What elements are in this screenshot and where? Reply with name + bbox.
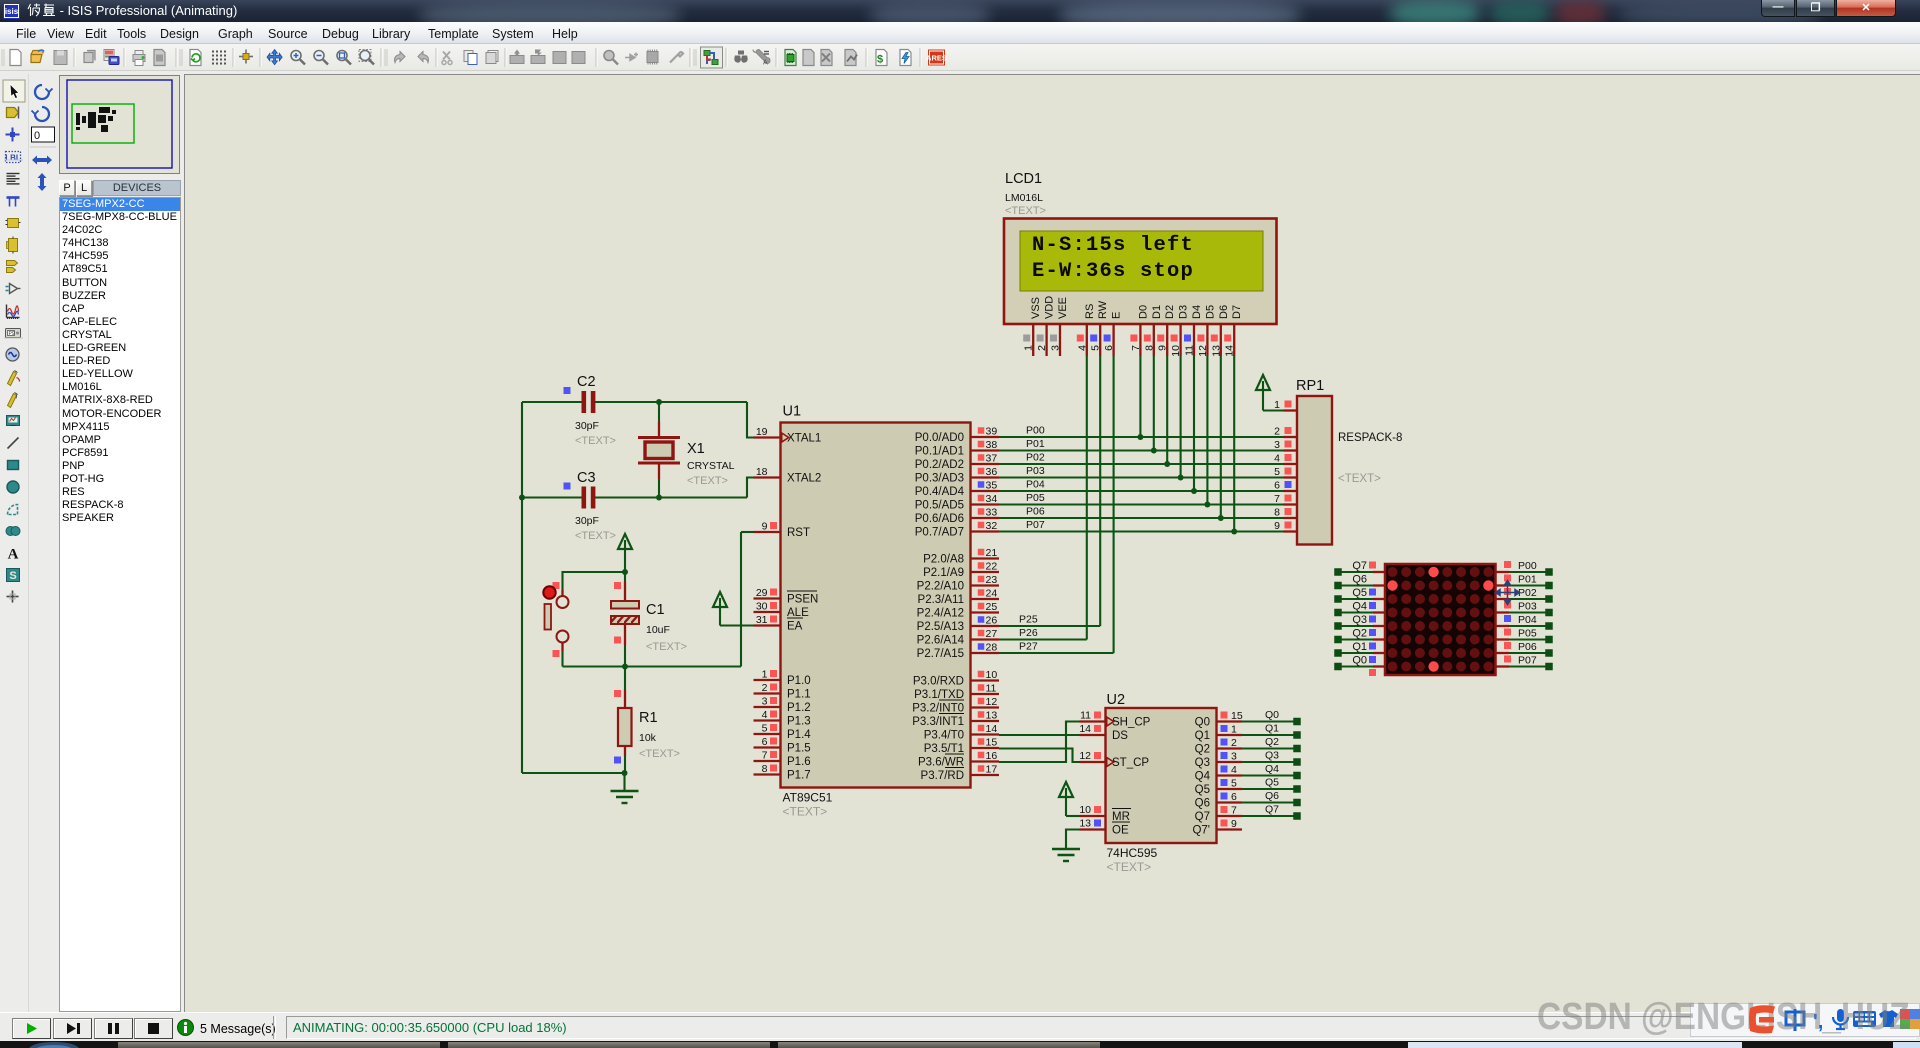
svg-text:13: 13 xyxy=(1210,345,1222,357)
svg-text:38: 38 xyxy=(986,439,998,451)
svg-text:9: 9 xyxy=(762,521,768,533)
svg-text:Q5: Q5 xyxy=(1352,587,1367,599)
svg-text:D4: D4 xyxy=(1191,305,1203,319)
svg-text:12: 12 xyxy=(1079,750,1091,762)
svg-text:VDD: VDD xyxy=(1044,296,1056,319)
svg-text:OE: OE xyxy=(1112,825,1129,837)
svg-text:9: 9 xyxy=(1274,520,1280,532)
svg-text:P0.7/AD7: P0.7/AD7 xyxy=(915,527,964,539)
svg-text:P06: P06 xyxy=(1026,506,1045,518)
svg-text:P1.0: P1.0 xyxy=(787,675,811,687)
svg-text:Q1: Q1 xyxy=(1265,723,1279,735)
svg-text:P3.6/WR: P3.6/WR xyxy=(918,757,964,769)
svg-text:P2.0/A8: P2.0/A8 xyxy=(923,554,964,566)
svg-text:D3: D3 xyxy=(1178,305,1190,319)
svg-text:Q2: Q2 xyxy=(1352,628,1367,640)
svg-text:P2.6/A14: P2.6/A14 xyxy=(917,635,965,647)
svg-text:Q4: Q4 xyxy=(1195,771,1211,783)
svg-text:5: 5 xyxy=(1274,466,1280,478)
svg-text:DS: DS xyxy=(1112,730,1128,742)
svg-text:2: 2 xyxy=(1036,345,1048,351)
svg-text:I: I xyxy=(16,394,18,401)
svg-text:Q5: Q5 xyxy=(1265,777,1279,789)
svg-text:Q7: Q7 xyxy=(1195,811,1210,823)
svg-text:P1.4: P1.4 xyxy=(787,729,811,741)
svg-text:P3.7/RD: P3.7/RD xyxy=(921,770,964,782)
svg-text:28: 28 xyxy=(986,642,998,654)
svg-text:P00: P00 xyxy=(1026,425,1045,437)
svg-text:<TEXT>: <TEXT> xyxy=(1005,205,1046,217)
svg-text:A: A xyxy=(8,547,19,563)
svg-text:0: 0 xyxy=(34,130,40,142)
svg-text:P02: P02 xyxy=(1518,587,1537,599)
svg-text:D5: D5 xyxy=(1204,305,1216,319)
svg-text:PSEN: PSEN xyxy=(787,594,818,606)
svg-text:5: 5 xyxy=(1090,345,1102,351)
svg-text:P9: P9 xyxy=(9,331,15,337)
svg-text:P3.4/T0: P3.4/T0 xyxy=(924,730,964,742)
svg-text:P1.5: P1.5 xyxy=(787,743,811,755)
svg-text:$: $ xyxy=(877,54,883,66)
svg-text:9: 9 xyxy=(1231,818,1237,830)
svg-text:10: 10 xyxy=(1170,345,1182,357)
svg-text:14: 14 xyxy=(1079,723,1091,735)
svg-text:P0.4/AD4: P0.4/AD4 xyxy=(915,486,965,498)
svg-text:SH_CP: SH_CP xyxy=(1112,717,1151,729)
svg-text:C3: C3 xyxy=(577,470,596,486)
svg-text:P07: P07 xyxy=(1518,655,1537,667)
svg-text:P1.1: P1.1 xyxy=(787,689,811,701)
svg-text:7: 7 xyxy=(1274,493,1280,505)
svg-text:P01: P01 xyxy=(1026,438,1045,450)
svg-text:U2: U2 xyxy=(1107,692,1126,708)
svg-text:25: 25 xyxy=(986,601,998,613)
svg-text:7: 7 xyxy=(1231,805,1237,817)
svg-text:2: 2 xyxy=(1274,426,1280,438)
svg-text:1: 1 xyxy=(1231,724,1237,736)
svg-text:D1: D1 xyxy=(1151,305,1163,319)
svg-text:9: 9 xyxy=(1157,345,1169,351)
svg-text:P2.5/A13: P2.5/A13 xyxy=(917,621,964,633)
svg-text:8: 8 xyxy=(1274,507,1280,519)
svg-text:10: 10 xyxy=(1079,804,1091,816)
svg-text:6: 6 xyxy=(762,736,768,748)
svg-text:15: 15 xyxy=(1231,710,1243,722)
svg-text:P26: P26 xyxy=(1019,627,1038,639)
svg-text:12: 12 xyxy=(1197,345,1209,357)
svg-text:5: 5 xyxy=(1231,778,1237,790)
svg-text:P06: P06 xyxy=(1518,641,1537,653)
svg-text:MR: MR xyxy=(1112,811,1130,823)
svg-text:<TEXT>: <TEXT> xyxy=(575,530,616,542)
svg-text:34: 34 xyxy=(986,493,998,505)
svg-text:A: A xyxy=(763,60,768,67)
svg-text:4: 4 xyxy=(1231,764,1237,776)
svg-text:13: 13 xyxy=(986,710,998,722)
svg-text:3: 3 xyxy=(1050,345,1062,351)
svg-text:11: 11 xyxy=(1080,710,1091,722)
svg-text:3: 3 xyxy=(1231,751,1237,763)
svg-text:11: 11 xyxy=(986,683,997,695)
svg-text:18: 18 xyxy=(756,466,768,478)
svg-text:2: 2 xyxy=(1231,737,1237,749)
svg-text:Q3: Q3 xyxy=(1352,614,1367,626)
svg-text:LBL: LBL xyxy=(5,154,21,163)
svg-text:P0.1/AD1: P0.1/AD1 xyxy=(915,446,964,458)
svg-text:D0: D0 xyxy=(1137,305,1149,319)
svg-text:P3.0/RXD: P3.0/RXD xyxy=(913,676,964,688)
svg-text:2: 2 xyxy=(762,682,768,694)
svg-text:1: 1 xyxy=(762,669,768,681)
svg-text:13: 13 xyxy=(1079,818,1091,830)
svg-text:<TEXT>: <TEXT> xyxy=(575,435,616,447)
svg-text:Q2: Q2 xyxy=(1265,736,1279,748)
svg-text:14: 14 xyxy=(986,723,998,735)
svg-text:30: 30 xyxy=(756,601,768,613)
svg-text:Q0: Q0 xyxy=(1352,655,1367,667)
svg-text:D7: D7 xyxy=(1231,305,1243,319)
svg-text:C1: C1 xyxy=(646,602,665,618)
svg-text:10uF: 10uF xyxy=(646,624,670,636)
svg-text:Q4: Q4 xyxy=(1352,601,1367,613)
svg-text:P0.6/AD6: P0.6/AD6 xyxy=(915,513,964,525)
svg-text:P25: P25 xyxy=(1019,614,1038,626)
svg-text:7: 7 xyxy=(762,750,768,762)
svg-text:7: 7 xyxy=(1130,345,1142,351)
svg-text:4: 4 xyxy=(762,709,768,721)
svg-text:ST_CP: ST_CP xyxy=(1112,757,1149,769)
svg-text:P2.1/A9: P2.1/A9 xyxy=(923,567,964,579)
svg-text:36: 36 xyxy=(986,466,998,478)
svg-text:P1.6: P1.6 xyxy=(787,756,811,768)
svg-text:6: 6 xyxy=(1231,791,1237,803)
svg-text:D2: D2 xyxy=(1164,305,1176,319)
svg-text:Q6: Q6 xyxy=(1265,790,1279,802)
svg-text:E-W:36s stop: E-W:36s stop xyxy=(1032,260,1194,283)
svg-text:P04: P04 xyxy=(1518,614,1537,626)
svg-text:C2: C2 xyxy=(577,374,596,390)
svg-text:P02: P02 xyxy=(1026,452,1045,464)
svg-text:Q6: Q6 xyxy=(1352,574,1367,586)
svg-text:P2.7/A15: P2.7/A15 xyxy=(917,648,964,660)
svg-text:P3.3/INT1: P3.3/INT1 xyxy=(912,716,964,728)
svg-text:P2.4/A12: P2.4/A12 xyxy=(917,608,964,620)
svg-text:29: 29 xyxy=(756,587,768,599)
svg-text:Q7': Q7' xyxy=(1192,825,1210,837)
svg-text:37: 37 xyxy=(986,453,998,465)
svg-text:P27: P27 xyxy=(1019,641,1038,653)
svg-text:16: 16 xyxy=(986,750,998,762)
svg-text:P2.3/A11: P2.3/A11 xyxy=(918,594,964,606)
svg-text:Q6: Q6 xyxy=(1195,798,1210,810)
svg-text:P3.2/INT0: P3.2/INT0 xyxy=(912,703,964,715)
svg-text:P03: P03 xyxy=(1518,601,1537,613)
svg-text:4: 4 xyxy=(1274,453,1280,465)
svg-text:Q3: Q3 xyxy=(1195,757,1210,769)
svg-text:<TEXT>: <TEXT> xyxy=(783,805,828,819)
svg-text:<TEXT>: <TEXT> xyxy=(687,475,728,487)
svg-text:P07: P07 xyxy=(1026,519,1045,531)
svg-text:Q7: Q7 xyxy=(1265,804,1279,816)
svg-text:Q1: Q1 xyxy=(1195,730,1210,742)
svg-text:<TEXT>: <TEXT> xyxy=(1107,860,1152,874)
svg-text:Q2: Q2 xyxy=(1195,744,1210,756)
svg-text:14: 14 xyxy=(1224,345,1236,357)
svg-text:Q0: Q0 xyxy=(1195,717,1210,729)
svg-text:22: 22 xyxy=(986,561,998,573)
svg-text:P05: P05 xyxy=(1518,628,1537,640)
svg-text:26: 26 xyxy=(986,615,998,627)
svg-text:XTAL2: XTAL2 xyxy=(787,473,821,485)
svg-text:VEE: VEE xyxy=(1057,297,1069,319)
svg-text:Q0: Q0 xyxy=(1265,709,1279,721)
svg-text:19: 19 xyxy=(756,426,768,438)
svg-text:X1: X1 xyxy=(687,441,705,457)
svg-text:D6: D6 xyxy=(1218,305,1230,319)
svg-text:17: 17 xyxy=(986,764,998,776)
svg-text:P0.3/AD3: P0.3/AD3 xyxy=(915,473,964,485)
svg-text:P0.2/AD2: P0.2/AD2 xyxy=(915,459,964,471)
svg-text:isis: isis xyxy=(5,7,19,16)
svg-text:U1: U1 xyxy=(783,404,802,420)
svg-text:RST: RST xyxy=(787,527,810,539)
svg-text:31: 31 xyxy=(756,614,768,626)
svg-text:P0.5/AD5: P0.5/AD5 xyxy=(915,500,964,512)
svg-text:Q5: Q5 xyxy=(1195,784,1210,796)
svg-text:P3.1/TXD: P3.1/TXD xyxy=(914,689,964,701)
svg-text:1: 1 xyxy=(1023,345,1035,351)
svg-text:N-S:15s left: N-S:15s left xyxy=(1032,234,1194,257)
svg-text:EA: EA xyxy=(787,621,803,633)
svg-text:P1.2: P1.2 xyxy=(787,702,811,714)
svg-text:30pF: 30pF xyxy=(575,420,599,432)
svg-text:P05: P05 xyxy=(1026,492,1045,504)
svg-text:32: 32 xyxy=(986,520,998,532)
svg-text:6: 6 xyxy=(1274,480,1280,492)
svg-text:5: 5 xyxy=(762,723,768,735)
svg-text:Q1: Q1 xyxy=(1352,641,1367,653)
svg-text:<TEXT>: <TEXT> xyxy=(646,641,687,653)
svg-text:15: 15 xyxy=(986,737,998,749)
svg-text:P0.0/AD0: P0.0/AD0 xyxy=(915,432,964,444)
svg-text:RESPACK-8: RESPACK-8 xyxy=(1338,432,1402,444)
svg-text:27: 27 xyxy=(986,628,998,640)
svg-text:E: E xyxy=(1111,312,1123,319)
svg-text:VSS: VSS xyxy=(1030,297,1042,319)
svg-text:10k: 10k xyxy=(639,732,657,744)
svg-text:Q4: Q4 xyxy=(1265,763,1279,775)
svg-text:<TEXT>: <TEXT> xyxy=(1338,473,1381,485)
svg-text:24: 24 xyxy=(986,588,998,600)
svg-text:AT89C51: AT89C51 xyxy=(783,791,833,805)
svg-text:P1.3: P1.3 xyxy=(787,716,811,728)
svg-text:10: 10 xyxy=(986,669,998,681)
svg-text:S: S xyxy=(9,570,16,582)
svg-text:P04: P04 xyxy=(1026,479,1045,491)
svg-text:30pF: 30pF xyxy=(575,515,599,527)
svg-text:P01: P01 xyxy=(1518,574,1537,586)
svg-text:LM016L: LM016L xyxy=(1005,192,1043,204)
svg-text:Q7: Q7 xyxy=(1352,560,1367,572)
svg-text:XTAL1: XTAL1 xyxy=(787,433,821,445)
svg-text:8: 8 xyxy=(1143,345,1155,351)
svg-text:33: 33 xyxy=(986,507,998,519)
svg-text:Q3: Q3 xyxy=(1265,750,1279,762)
svg-text:P03: P03 xyxy=(1026,465,1045,477)
svg-text:74HC595: 74HC595 xyxy=(1107,846,1158,860)
svg-text:39: 39 xyxy=(986,426,998,438)
svg-text:RW: RW xyxy=(1097,300,1109,319)
svg-text:35: 35 xyxy=(986,480,998,492)
svg-text:12: 12 xyxy=(986,696,998,708)
svg-text:8: 8 xyxy=(762,763,768,775)
svg-text:ALE: ALE xyxy=(787,607,809,619)
svg-text:3: 3 xyxy=(1274,439,1280,451)
svg-text:P2.2/A10: P2.2/A10 xyxy=(917,581,964,593)
svg-text:21: 21 xyxy=(986,547,998,559)
svg-text:R1: R1 xyxy=(639,710,658,726)
svg-text:3: 3 xyxy=(762,696,768,708)
svg-text:CRYSTAL: CRYSTAL xyxy=(687,460,735,472)
svg-text:RP1: RP1 xyxy=(1296,378,1324,394)
svg-text:6: 6 xyxy=(1103,345,1115,351)
svg-text:1: 1 xyxy=(1274,399,1280,411)
svg-text:P00: P00 xyxy=(1518,560,1537,572)
svg-text:<TEXT>: <TEXT> xyxy=(639,748,680,760)
svg-text:23: 23 xyxy=(986,574,998,586)
svg-text:4: 4 xyxy=(1076,345,1088,351)
svg-text:RS: RS xyxy=(1084,304,1096,319)
svg-text:P1.7: P1.7 xyxy=(787,770,811,782)
svg-text:P3.5/T1: P3.5/T1 xyxy=(924,743,964,755)
svg-text:LCD1: LCD1 xyxy=(1005,171,1042,187)
svg-text:11: 11 xyxy=(1184,345,1196,356)
